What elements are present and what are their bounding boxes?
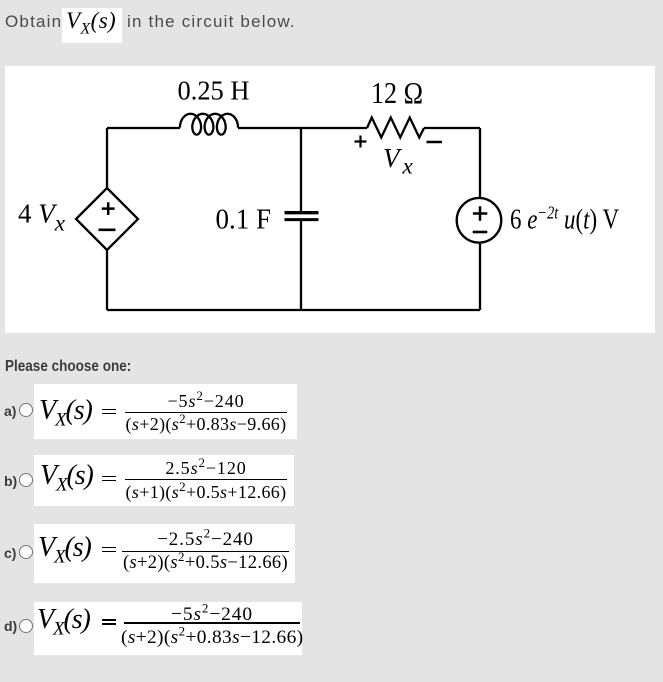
minus sign right of resistor: [427, 141, 443, 144]
minus in circle: [473, 231, 488, 234]
source V1 circle: [457, 198, 502, 243]
option a: [4, 403, 16, 419]
title: [5, 12, 62, 32]
svg-text:4 Vx: 4 Vx: [18, 199, 66, 236]
please choose one: [5, 358, 131, 376]
inductor L1 0.25 H: [180, 114, 238, 135]
wire right lower: [479, 243, 481, 310]
wire top-left: [107, 127, 180, 129]
wire bottom: [107, 309, 480, 311]
wire left lower: [106, 250, 108, 310]
plus in circle: [473, 206, 487, 220]
plus in diamond: [102, 202, 115, 215]
svg-text:0.1 F: 0.1 F: [216, 204, 272, 236]
plus sign left of resistor: [355, 136, 367, 148]
dependent source E1 diamond: [76, 188, 138, 250]
wire right upper: [479, 128, 481, 198]
label 6e-2t u(t) V: [510, 203, 620, 235]
circuit panel: [5, 66, 655, 333]
svg-text:12 Ω: 12 Ω: [371, 75, 423, 110]
capacitor C1 0.1F plates: [285, 211, 319, 214]
wire top-mid: [238, 127, 367, 129]
wire mid lower: [300, 221, 302, 310]
wire mid upper: [300, 128, 302, 211]
option d: [4, 618, 17, 634]
wire top-right: [424, 127, 480, 129]
resistor R1 12ohm: [367, 118, 424, 138]
svg-text:6 e−2t u(t) V: 6 e−2t u(t) V: [510, 203, 620, 235]
option c: [4, 545, 16, 561]
svg-text:Vx: Vx: [383, 143, 414, 179]
option b: [4, 473, 17, 489]
minus in diamond: [99, 229, 116, 232]
svg-text:0.25 H: 0.25 H: [178, 76, 250, 106]
wire left upper: [106, 128, 108, 188]
